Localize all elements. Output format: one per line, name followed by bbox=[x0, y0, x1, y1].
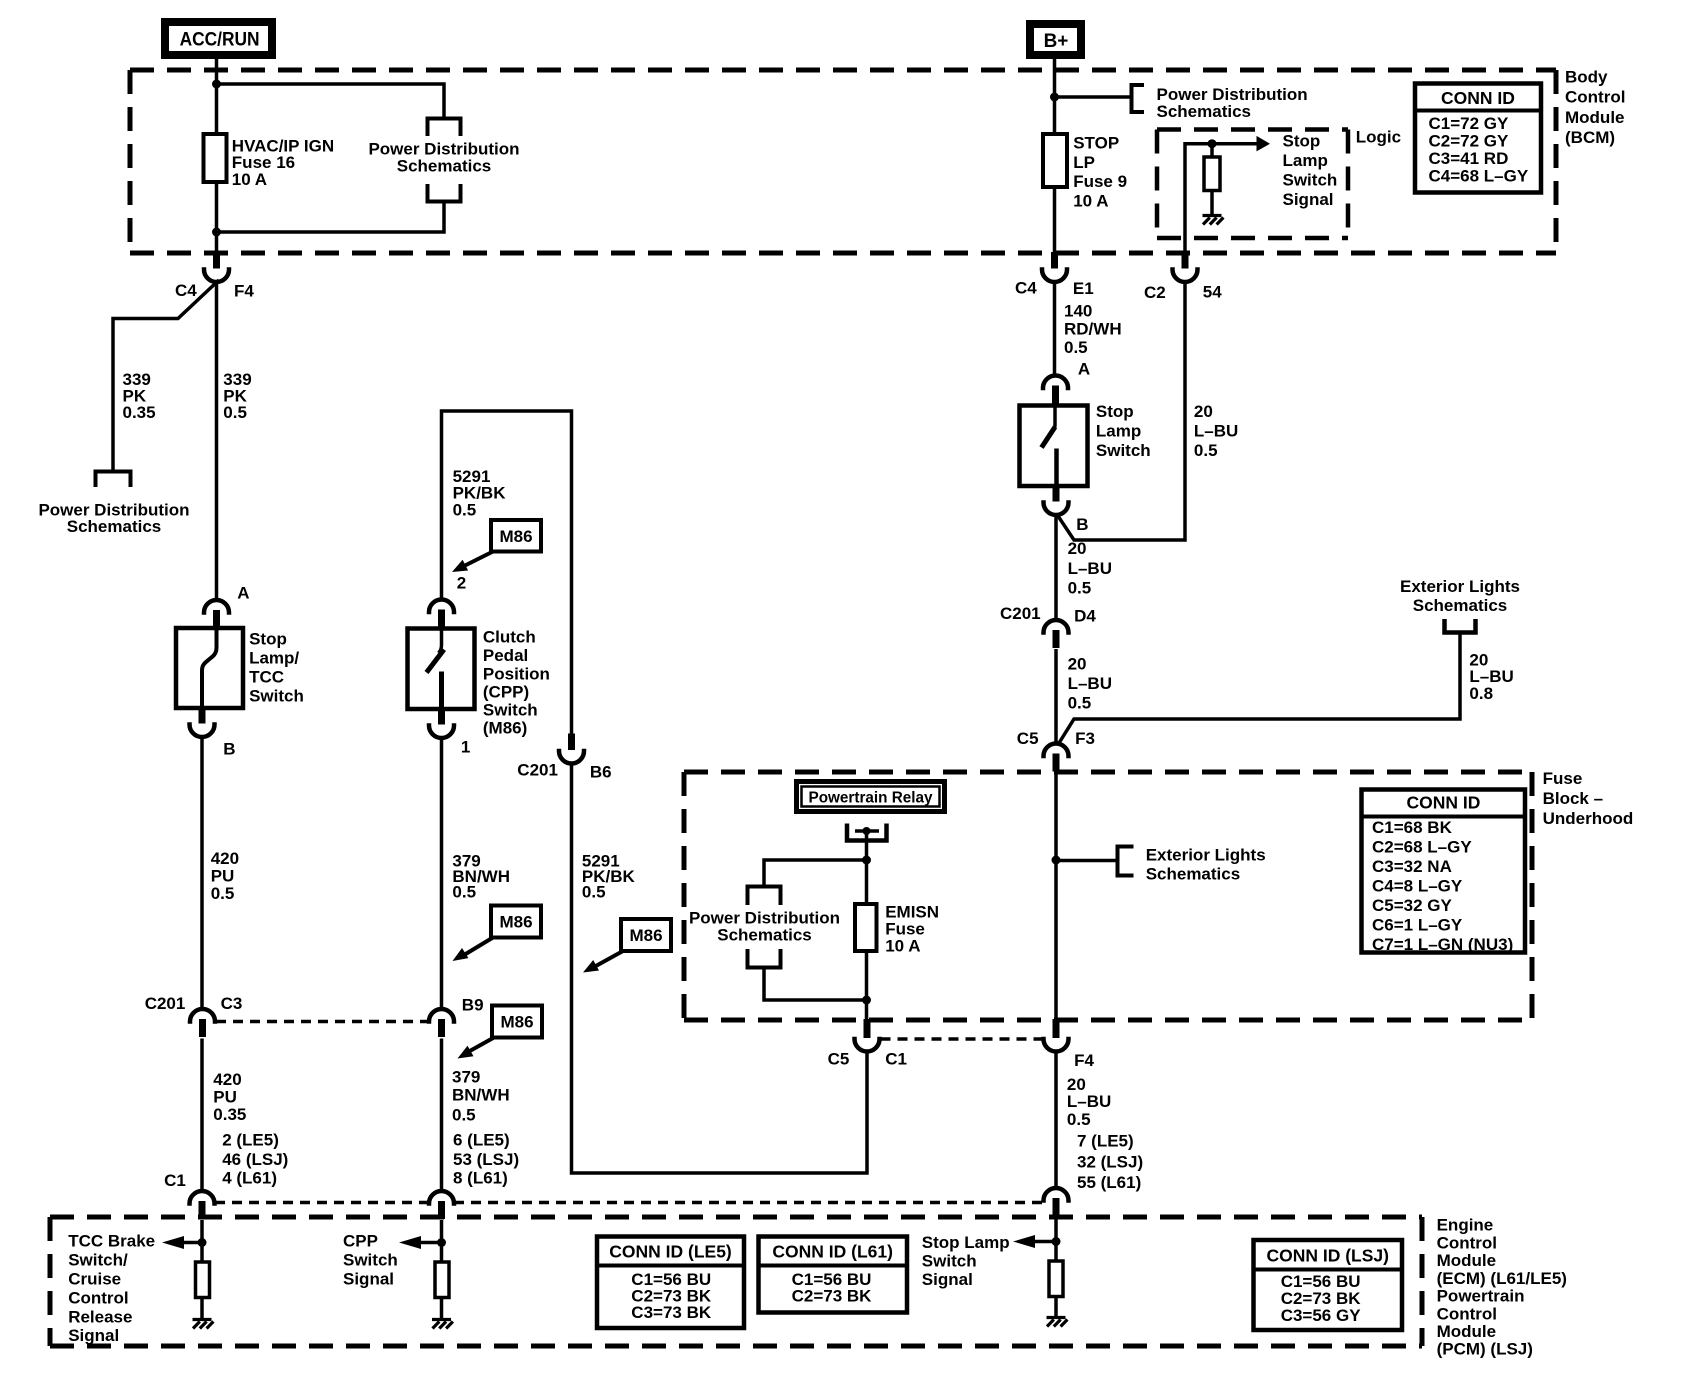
ground (ECM middle) bbox=[432, 1318, 451, 1321]
junction node exterior lights tap bbox=[1052, 856, 1061, 865]
svg-text:TCC: TCC bbox=[249, 667, 284, 686]
svg-text:0.35: 0.35 bbox=[123, 403, 156, 422]
svg-text:Clutch: Clutch bbox=[483, 628, 536, 647]
wire B9 to ECM connector C1 (379 BN/WH) bbox=[440, 1039, 444, 1192]
svg-text:C1: C1 bbox=[164, 1171, 186, 1190]
junction node above connector C4/F4 bbox=[212, 228, 221, 237]
wire EMISN fuse to C5/C1 bbox=[865, 951, 869, 1020]
wire from schematics loop back to main (bottom) bbox=[217, 202, 445, 233]
junction node top-left bbox=[212, 80, 221, 89]
svg-text:Switch: Switch bbox=[343, 1251, 398, 1270]
svg-text:Switch: Switch bbox=[922, 1251, 977, 1270]
svg-text:C6=1 L–GY: C6=1 L–GY bbox=[1372, 915, 1463, 934]
svg-text:Exterior Lights: Exterior Lights bbox=[1400, 577, 1520, 596]
dashed ECM connector line (left segment) bbox=[215, 1201, 429, 1205]
svg-text:Module: Module bbox=[1437, 1251, 1497, 1270]
resistor ECM left bbox=[196, 1262, 210, 1298]
wire C201/D4 to C5/F3 (20 L-BU) bbox=[1054, 649, 1058, 744]
ground (logic) bbox=[1203, 214, 1222, 217]
svg-text:0.5: 0.5 bbox=[211, 884, 235, 903]
svg-text:M86: M86 bbox=[500, 1013, 533, 1032]
svg-text:Lamp: Lamp bbox=[1283, 151, 1328, 170]
arrow TCC brake switch signal bbox=[184, 1241, 202, 1245]
svg-text:46 (LSJ): 46 (LSJ) bbox=[222, 1150, 288, 1169]
wire resistor to ground (logic) bbox=[1210, 191, 1214, 215]
svg-text:RD/WH: RD/WH bbox=[1064, 320, 1122, 339]
wire to exterior lights bracket (fuse block) bbox=[1056, 859, 1116, 863]
table CONN ID (LE5) bbox=[597, 1237, 744, 1329]
svg-text:A: A bbox=[237, 584, 249, 603]
svg-text:C4=68 L–GY: C4=68 L–GY bbox=[1429, 166, 1529, 185]
wire slash branch from C4/F4 to power distribution bbox=[113, 280, 219, 471]
connector A (TCC switch) bbox=[204, 600, 229, 613]
svg-text:Control: Control bbox=[1437, 1304, 1497, 1323]
svg-text:C5: C5 bbox=[828, 1050, 850, 1069]
svg-text:4 (L61): 4 (L61) bbox=[222, 1169, 277, 1188]
label box Powertrain Relay bbox=[797, 782, 945, 812]
svg-text:F3: F3 bbox=[1075, 729, 1095, 748]
svg-text:Cruise: Cruise bbox=[68, 1270, 121, 1289]
svg-text:L–BU: L–BU bbox=[1067, 1092, 1111, 1111]
svg-text:6 (LE5): 6 (LE5) bbox=[453, 1131, 510, 1150]
junction node B+ branch bbox=[1050, 93, 1059, 102]
wire ECM middle pin to junction bbox=[440, 1220, 444, 1262]
connector B9 bbox=[429, 1009, 454, 1022]
svg-text:C5: C5 bbox=[1017, 729, 1039, 748]
switch blade TCC (closed) bbox=[202, 628, 217, 708]
svg-text:F4: F4 bbox=[1074, 1051, 1094, 1070]
wire C201/C3 to ECM connector C1 (420 PU) bbox=[200, 1039, 204, 1192]
connector C201/D4 bbox=[1044, 620, 1069, 633]
wire 5291 B6 down and over to fuse block C1 bbox=[572, 764, 868, 1173]
switch Stop Lamp/TCC Switch box bbox=[176, 628, 243, 708]
svg-text:Underhood: Underhood bbox=[1543, 809, 1634, 828]
Engine Control Module dashed box bbox=[50, 1215, 1422, 1220]
svg-text:Logic: Logic bbox=[1356, 128, 1401, 147]
svg-text:M86: M86 bbox=[499, 527, 532, 546]
svg-text:Exterior Lights: Exterior Lights bbox=[1146, 845, 1266, 864]
svg-text:B: B bbox=[1076, 515, 1088, 534]
power distribution schematics bracket symbol (BCM right) bbox=[1132, 85, 1145, 112]
svg-text:CONN ID (L61): CONN ID (L61) bbox=[772, 1241, 893, 1261]
svg-text:Module: Module bbox=[1565, 108, 1625, 127]
svg-text:C4: C4 bbox=[1015, 278, 1037, 297]
wire B to C201/D4 (20 L-BU) bbox=[1054, 514, 1058, 621]
svg-text:C1=68 BK: C1=68 BK bbox=[1372, 818, 1453, 837]
svg-text:TCC Brake: TCC Brake bbox=[68, 1232, 155, 1251]
svg-text:0.5: 0.5 bbox=[223, 403, 247, 422]
svg-text:Engine: Engine bbox=[1437, 1216, 1494, 1235]
connector C1 (ECM middle) bbox=[429, 1191, 454, 1204]
ground (ECM left) bbox=[193, 1318, 212, 1321]
svg-text:C3=41 RD: C3=41 RD bbox=[1429, 149, 1509, 168]
fuse EMISN Fuse 10A bbox=[855, 904, 877, 951]
svg-text:Signal: Signal bbox=[1283, 190, 1334, 209]
wire relay contact down bbox=[865, 833, 869, 860]
svg-text:B6: B6 bbox=[590, 763, 612, 782]
connector C4/E1 (BCM right) bbox=[1051, 252, 1058, 269]
svg-text:ACC/RUN: ACC/RUN bbox=[180, 30, 260, 51]
connector C201/C3 bbox=[190, 1009, 215, 1021]
power distribution schematics symbol bottom bracket (BCM left) bbox=[428, 184, 461, 202]
svg-text:L–BU: L–BU bbox=[1068, 559, 1112, 578]
svg-text:C3=32 NA: C3=32 NA bbox=[1372, 857, 1452, 876]
svg-text:8 (L61): 8 (L61) bbox=[453, 1169, 508, 1188]
wire C4/E1 to connector A (140 RD/WH) bbox=[1053, 282, 1057, 376]
wire CPP 1 to B9 (379 BN/WH) bbox=[440, 738, 444, 1009]
svg-text:PU: PU bbox=[213, 1087, 237, 1106]
svg-text:Stop: Stop bbox=[1283, 132, 1321, 151]
svg-text:C4: C4 bbox=[175, 281, 197, 300]
svg-text:C7=1 L–GN (NU3): C7=1 L–GN (NU3) bbox=[1372, 935, 1513, 954]
svg-text:C2=68 L–GY: C2=68 L–GY bbox=[1372, 837, 1472, 856]
svg-text:D4: D4 bbox=[1074, 606, 1096, 625]
junction node EMISN bottom bbox=[862, 996, 871, 1005]
svg-text:Control: Control bbox=[1565, 88, 1625, 107]
svg-text:PU: PU bbox=[211, 867, 235, 886]
svg-text:Switch/: Switch/ bbox=[68, 1251, 128, 1270]
svg-text:54: 54 bbox=[1203, 282, 1222, 301]
svg-text:(CPP): (CPP) bbox=[483, 683, 529, 702]
svg-text:Schematics: Schematics bbox=[67, 517, 162, 536]
callout M86 box #1 bbox=[491, 520, 541, 552]
svg-text:0.5: 0.5 bbox=[1067, 1110, 1091, 1129]
junction node ECM middle bbox=[437, 1238, 446, 1247]
svg-text:B: B bbox=[223, 739, 235, 758]
wire C4/F4 to connector A (339 PK) bbox=[215, 282, 219, 601]
power distribution schematics bottom bracket (fuse block) bbox=[748, 949, 781, 968]
svg-text:20: 20 bbox=[1194, 402, 1213, 421]
svg-text:(BCM): (BCM) bbox=[1565, 128, 1615, 147]
resistor ECM middle bbox=[435, 1262, 449, 1298]
connector 55 (ECM right) bbox=[1044, 1188, 1069, 1201]
svg-text:Pedal: Pedal bbox=[483, 646, 528, 665]
svg-text:M86: M86 bbox=[629, 926, 662, 945]
terminal B+ bbox=[1030, 24, 1081, 55]
svg-text:2 (LE5): 2 (LE5) bbox=[222, 1131, 279, 1150]
svg-text:Switch: Switch bbox=[1283, 171, 1338, 190]
svg-text:0.5: 0.5 bbox=[1068, 578, 1092, 597]
svg-text:(M86): (M86) bbox=[483, 719, 527, 738]
svg-text:A: A bbox=[1078, 359, 1090, 378]
svg-text:Release: Release bbox=[68, 1307, 132, 1326]
svg-text:1: 1 bbox=[461, 738, 470, 757]
connector B (TCC switch) bbox=[199, 707, 206, 724]
svg-text:7 (LE5): 7 (LE5) bbox=[1077, 1132, 1134, 1151]
svg-text:C3=56 GY: C3=56 GY bbox=[1281, 1306, 1362, 1325]
power distribution schematics bracket (left stub) bbox=[96, 472, 131, 488]
connector B (stop lamp switch) bbox=[1053, 485, 1060, 502]
svg-text:Stop Lamp: Stop Lamp bbox=[922, 1233, 1010, 1252]
connector C5/F3 (fuse block top) bbox=[1044, 744, 1069, 757]
wire ECM right pin to junction bbox=[1054, 1219, 1058, 1261]
svg-text:(ECM) (L61/LE5): (ECM) (L61/LE5) bbox=[1437, 1269, 1567, 1288]
wire resistor to ground (ECM right) bbox=[1054, 1297, 1058, 1317]
svg-text:20: 20 bbox=[1068, 539, 1087, 558]
svg-text:C3=73 BK: C3=73 BK bbox=[631, 1303, 712, 1322]
table CONN ID (fuse block) bbox=[1362, 790, 1526, 953]
svg-text:0.5: 0.5 bbox=[452, 1106, 476, 1125]
dashed ECM connector line (right segment) bbox=[454, 1201, 1044, 1205]
connector 1 (CPP switch) bbox=[438, 708, 445, 725]
wire B diagonal to 54 branch bbox=[1057, 284, 1185, 541]
wire power distribution loop return bbox=[764, 968, 867, 1001]
connector C201/B6 bbox=[568, 734, 575, 751]
svg-text:C3: C3 bbox=[221, 994, 243, 1013]
svg-text:379: 379 bbox=[452, 1068, 480, 1087]
svg-text:0.5: 0.5 bbox=[1194, 441, 1218, 460]
relay contact bracket bbox=[847, 824, 887, 841]
svg-text:0.5: 0.5 bbox=[582, 882, 606, 901]
svg-text:Module: Module bbox=[1437, 1322, 1497, 1341]
switch Stop Lamp Switch box bbox=[1020, 406, 1088, 487]
svg-text:Schematics: Schematics bbox=[397, 156, 492, 175]
svg-text:0.5: 0.5 bbox=[1064, 338, 1088, 357]
svg-text:Switch: Switch bbox=[249, 686, 304, 705]
switch blade CPP (open) bbox=[439, 629, 442, 654]
svg-text:Block –: Block – bbox=[1543, 789, 1603, 808]
svg-text:Position: Position bbox=[483, 664, 550, 683]
svg-text:Signal: Signal bbox=[343, 1270, 394, 1289]
svg-text:0.5: 0.5 bbox=[452, 882, 476, 901]
svg-text:Fuse: Fuse bbox=[1543, 769, 1583, 788]
svg-text:C1: C1 bbox=[885, 1050, 907, 1069]
arrow stop lamp switch signal (ECM) bbox=[1035, 1240, 1056, 1244]
svg-text:C5=32 GY: C5=32 GY bbox=[1372, 896, 1453, 915]
svg-text:Signal: Signal bbox=[922, 1270, 973, 1289]
Logic dashed box bbox=[1157, 127, 1348, 132]
svg-text:Switch: Switch bbox=[1096, 441, 1151, 460]
wire F4 to ECM 55 (20 L-BU) bbox=[1054, 1052, 1058, 1189]
svg-text:Lamp: Lamp bbox=[1096, 422, 1141, 441]
callout M86 box #4 bbox=[621, 919, 671, 951]
junction node ECM left bbox=[198, 1238, 207, 1247]
connector C1 (ECM left) bbox=[190, 1191, 215, 1204]
wire relay to EMISN fuse bbox=[865, 860, 869, 904]
wire resistor to ground (ECM left) bbox=[200, 1298, 204, 1319]
svg-text:CONN ID (LSJ): CONN ID (LSJ) bbox=[1266, 1245, 1389, 1265]
Fuse Block Underhood dashed box bbox=[684, 770, 1532, 775]
svg-text:53 (LSJ): 53 (LSJ) bbox=[453, 1150, 519, 1169]
svg-text:B+: B+ bbox=[1044, 31, 1069, 52]
svg-text:10 A: 10 A bbox=[232, 170, 267, 189]
connector A (stop lamp switch) bbox=[1043, 376, 1068, 389]
connector 2 (CPP switch) bbox=[429, 600, 454, 613]
svg-text:Stop: Stop bbox=[1096, 402, 1134, 421]
fuse STOP LP Fuse 9 10A bbox=[1043, 134, 1067, 187]
svg-text:Schematics: Schematics bbox=[1146, 864, 1241, 883]
svg-text:0.35: 0.35 bbox=[213, 1105, 246, 1124]
svg-text:L–BU: L–BU bbox=[1068, 674, 1112, 693]
svg-text:20: 20 bbox=[1068, 654, 1087, 673]
svg-text:M86: M86 bbox=[499, 913, 532, 932]
svg-text:E1: E1 bbox=[1073, 279, 1094, 298]
table CONN ID (LSJ) bbox=[1254, 1240, 1403, 1330]
svg-text:B9: B9 bbox=[462, 995, 484, 1014]
callout arrow M86 #1 bbox=[464, 552, 493, 567]
callout arrow M86 #4 bbox=[594, 951, 623, 967]
junction node logic resistor tap bbox=[1208, 139, 1217, 148]
svg-text:140: 140 bbox=[1064, 302, 1092, 321]
svg-text:10 A: 10 A bbox=[885, 937, 920, 956]
svg-text:Control: Control bbox=[68, 1288, 128, 1307]
svg-text:LP: LP bbox=[1073, 153, 1095, 172]
arrow CPP switch signal bbox=[421, 1241, 442, 1245]
svg-text:C2=73 BK: C2=73 BK bbox=[792, 1286, 873, 1305]
wire fuse block right column (F3 to F4) bbox=[1054, 773, 1058, 1020]
power distribution schematics top bracket (fuse block) bbox=[748, 887, 781, 906]
connector C5/C1 (fuse block bottom) bbox=[864, 1019, 871, 1038]
Body Control Module (BCM) dashed box bbox=[130, 68, 1556, 73]
resistor logic pull-down bbox=[1204, 157, 1220, 191]
svg-text:C2=72 GY: C2=72 GY bbox=[1429, 131, 1510, 150]
switch Clutch Pedal Position box bbox=[408, 629, 475, 710]
svg-text:(PCM) (LSJ): (PCM) (LSJ) bbox=[1437, 1340, 1533, 1359]
svg-text:Schematics: Schematics bbox=[1413, 596, 1508, 615]
wire 5291 top loop bbox=[442, 411, 572, 735]
wire B+ down to connector C4/E1 bbox=[1053, 59, 1057, 253]
relay contact bar and dot bbox=[855, 829, 879, 833]
svg-text:Switch: Switch bbox=[483, 700, 538, 719]
wire ECM left pin to junction bbox=[200, 1220, 204, 1262]
svg-text:C2: C2 bbox=[1144, 283, 1166, 302]
fuse HVAC/IP IGN Fuse 16 10A bbox=[204, 134, 227, 182]
svg-text:Stop: Stop bbox=[249, 630, 287, 649]
callout arrow M86 #3 bbox=[468, 1038, 494, 1053]
svg-text:Fuse 9: Fuse 9 bbox=[1073, 172, 1127, 191]
switch blade stop lamp (open) bbox=[1053, 406, 1056, 432]
wire logic input up from C2 pin bbox=[1185, 144, 1257, 253]
svg-text:C1=72 GY: C1=72 GY bbox=[1429, 114, 1510, 133]
svg-text:10 A: 10 A bbox=[1073, 192, 1108, 211]
svg-text:55 (L61): 55 (L61) bbox=[1077, 1173, 1141, 1192]
svg-text:Powertrain Relay: Powertrain Relay bbox=[809, 789, 933, 806]
svg-text:C201: C201 bbox=[1000, 604, 1041, 623]
power distribution schematics symbol top bracket (BCM left) bbox=[428, 119, 461, 137]
svg-text:BN/WH: BN/WH bbox=[452, 1085, 510, 1104]
svg-text:0.5: 0.5 bbox=[1068, 694, 1092, 713]
svg-text:F4: F4 bbox=[234, 281, 254, 300]
junction node relay to PDS branch bbox=[862, 856, 871, 865]
wire branch to Power Distribution Schematics loop (top) bbox=[217, 84, 445, 119]
resistor ECM right bbox=[1049, 1261, 1063, 1297]
svg-text:C4=8 L–GY: C4=8 L–GY bbox=[1372, 876, 1463, 895]
svg-text:CONN ID (LE5): CONN ID (LE5) bbox=[609, 1241, 732, 1261]
dashed harness line C201 (C3 to B9) bbox=[216, 1020, 428, 1024]
terminal ACC/RUN bbox=[165, 22, 272, 55]
connector C2/54 (BCM logic) bbox=[1182, 252, 1189, 269]
svg-text:STOP: STOP bbox=[1073, 134, 1119, 153]
wire resistor stub (logic) bbox=[1210, 144, 1214, 157]
exterior lights schematics bracket (fuse block) bbox=[1118, 847, 1134, 876]
svg-text:CONN ID: CONN ID bbox=[1441, 88, 1515, 108]
connector F4 (fuse block bottom) bbox=[1053, 1019, 1060, 1038]
callout arrow M86 #2 bbox=[464, 938, 493, 956]
svg-text:420: 420 bbox=[213, 1070, 241, 1089]
svg-text:Schematics: Schematics bbox=[717, 926, 812, 945]
svg-text:Lamp/: Lamp/ bbox=[249, 649, 299, 668]
wire B to C201/C3 (420 PU) bbox=[200, 738, 204, 1010]
callout M86 box #3 bbox=[492, 1006, 542, 1038]
exterior lights schematics bracket (top right) bbox=[1445, 619, 1476, 633]
junction node ECM right bbox=[1052, 1237, 1061, 1246]
ground (ECM right) bbox=[1047, 1316, 1066, 1319]
svg-text:C201: C201 bbox=[145, 994, 186, 1013]
connector C4/F4 (BCM to IP harness) bbox=[213, 252, 220, 269]
svg-text:C201: C201 bbox=[517, 761, 558, 780]
wire exterior lights branch bbox=[1059, 635, 1460, 744]
svg-text:Body: Body bbox=[1565, 67, 1608, 86]
svg-text:Powertrain: Powertrain bbox=[1437, 1287, 1525, 1306]
wire ACC/RUN down to connector C4/F4 bbox=[215, 59, 219, 253]
svg-text:20: 20 bbox=[1067, 1075, 1086, 1094]
table CONN ID (BCM) bbox=[1415, 84, 1541, 193]
svg-text:0.5: 0.5 bbox=[453, 500, 477, 519]
wire to power distribution schematics bracket (BCM right) bbox=[1055, 95, 1130, 99]
svg-text:CONN ID: CONN ID bbox=[1407, 792, 1481, 812]
svg-text:420: 420 bbox=[211, 849, 239, 868]
svg-text:L–BU: L–BU bbox=[1194, 422, 1238, 441]
svg-text:CPP: CPP bbox=[343, 1232, 378, 1251]
table CONN ID (L61) bbox=[759, 1237, 908, 1313]
svg-text:32 (LSJ): 32 (LSJ) bbox=[1077, 1152, 1143, 1171]
arrow Stop Lamp Switch Signal (logic) bbox=[1257, 136, 1271, 152]
svg-text:0.8: 0.8 bbox=[1469, 684, 1493, 703]
wire resistor to ground (ECM middle) bbox=[440, 1298, 444, 1319]
dashed harness line C1 to F4 bbox=[881, 1037, 1043, 1041]
svg-text:Control: Control bbox=[1437, 1233, 1497, 1252]
svg-text:Schematics: Schematics bbox=[1157, 102, 1252, 121]
callout M86 box #2 bbox=[491, 906, 541, 938]
wire to power distribution loop (fuse block) bbox=[764, 860, 867, 887]
svg-text:2: 2 bbox=[457, 573, 466, 592]
svg-text:Signal: Signal bbox=[68, 1326, 119, 1345]
